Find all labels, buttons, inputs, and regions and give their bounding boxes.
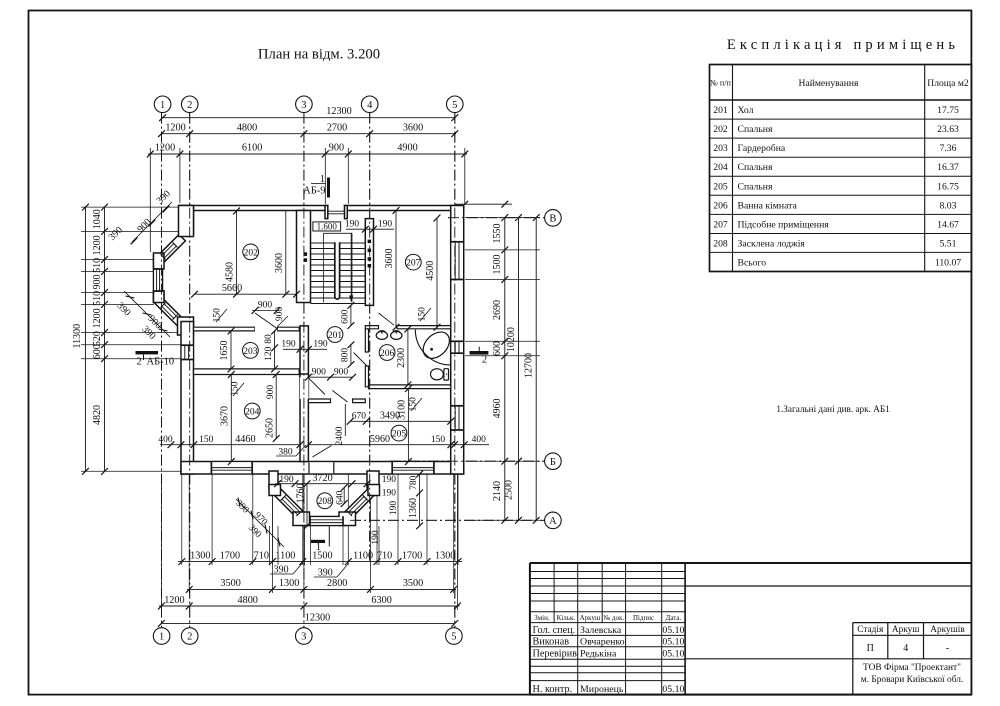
svg-text:4: 4	[903, 643, 908, 654]
svg-text:3600: 3600	[403, 122, 423, 133]
svg-text:-: -	[946, 643, 950, 654]
svg-text:208: 208	[318, 497, 333, 507]
svg-text:190: 190	[378, 219, 393, 229]
svg-text:05.10: 05.10	[662, 684, 684, 695]
svg-text:190: 190	[389, 501, 399, 516]
svg-text:800: 800	[340, 348, 350, 363]
svg-text:1: 1	[160, 100, 165, 111]
svg-text:Виконав: Виконав	[533, 636, 570, 647]
svg-text:В: В	[549, 214, 556, 225]
svg-text:520: 520	[92, 331, 103, 346]
svg-text:1100: 1100	[275, 551, 295, 562]
svg-text:190: 190	[313, 340, 328, 350]
svg-text:80: 80	[264, 334, 274, 344]
svg-text:4580: 4580	[225, 262, 236, 282]
svg-text:5: 5	[451, 632, 456, 643]
svg-text:№ док.: № док.	[603, 614, 624, 622]
svg-text:Гол. спец.: Гол. спец.	[533, 625, 576, 636]
svg-text:Гардеробна: Гардеробна	[738, 143, 786, 154]
svg-text:Найменування: Найменування	[799, 78, 860, 89]
svg-text:900: 900	[92, 275, 103, 290]
svg-text:190: 190	[279, 475, 294, 485]
svg-text:900: 900	[312, 367, 327, 377]
svg-text:8.03: 8.03	[940, 200, 957, 211]
svg-text:3670: 3670	[220, 406, 231, 426]
svg-text:5960: 5960	[370, 434, 390, 445]
svg-text:Спальня: Спальня	[738, 162, 773, 173]
svg-text:1040: 1040	[92, 209, 103, 229]
svg-text:Змін.: Змін.	[534, 614, 550, 622]
svg-text:4: 4	[367, 100, 373, 111]
svg-text:600: 600	[92, 344, 103, 359]
svg-text:205: 205	[713, 181, 728, 192]
svg-text:600: 600	[340, 309, 350, 324]
svg-text:4500: 4500	[425, 261, 436, 281]
svg-text:16.75: 16.75	[937, 181, 959, 192]
svg-text:640: 640	[336, 490, 346, 505]
svg-text:670: 670	[352, 412, 367, 422]
svg-text:№ п/п: № п/п	[710, 79, 732, 88]
svg-text:12700: 12700	[524, 353, 535, 378]
svg-text:1200: 1200	[92, 235, 103, 255]
svg-text:120: 120	[264, 346, 274, 361]
svg-text:2140: 2140	[492, 481, 503, 501]
svg-text:4460: 4460	[235, 434, 255, 445]
svg-text:510: 510	[92, 291, 103, 306]
svg-text:16.37: 16.37	[937, 162, 959, 173]
svg-text:3600: 3600	[274, 253, 285, 273]
svg-text:м. Бровари Київської обл.: м. Бровари Київської обл.	[861, 674, 964, 685]
svg-text:Стадія: Стадія	[857, 625, 884, 635]
svg-text:Спальня: Спальня	[738, 124, 773, 135]
svg-text:3: 3	[301, 632, 306, 643]
svg-text:2400: 2400	[335, 426, 345, 445]
svg-text:Аркуш: Аркуш	[580, 614, 601, 622]
svg-text:5: 5	[452, 100, 457, 111]
svg-text:2800: 2800	[327, 578, 347, 589]
svg-text:1.600: 1.600	[317, 222, 338, 232]
svg-text:208: 208	[713, 239, 728, 250]
svg-text:1500: 1500	[492, 255, 503, 275]
svg-text:150: 150	[431, 435, 446, 445]
svg-text:Аркушів: Аркушів	[930, 625, 965, 635]
svg-text:2650: 2650	[264, 418, 275, 438]
svg-text:05.10: 05.10	[662, 625, 684, 636]
svg-text:Залевська: Залевська	[580, 625, 622, 636]
svg-text:110.07: 110.07	[935, 257, 961, 268]
svg-text:Миронець: Миронець	[580, 684, 624, 695]
svg-text:4960: 4960	[492, 399, 503, 419]
svg-text:2700: 2700	[327, 122, 347, 133]
svg-text:17.75: 17.75	[937, 105, 959, 116]
svg-text:207: 207	[406, 259, 421, 269]
svg-text:05.10: 05.10	[662, 636, 684, 647]
svg-text:Засклена лоджія: Засклена лоджія	[738, 239, 806, 250]
svg-text:6100: 6100	[242, 143, 262, 154]
svg-text:1760: 1760	[295, 483, 306, 503]
svg-text:А: А	[549, 516, 557, 527]
svg-text:П: П	[867, 643, 874, 654]
svg-text:Експлікація приміщень: Експлікація приміщень	[727, 37, 959, 53]
svg-text:400: 400	[158, 435, 173, 445]
svg-text:1: 1	[316, 542, 321, 553]
svg-text:203: 203	[713, 143, 728, 154]
svg-text:1300: 1300	[435, 551, 455, 562]
svg-text:190: 190	[382, 488, 397, 498]
svg-text:1200: 1200	[155, 143, 175, 154]
svg-text:202: 202	[244, 248, 259, 258]
svg-text:900: 900	[266, 385, 276, 400]
svg-text:Редькіна: Редькіна	[580, 648, 617, 659]
svg-text:4800: 4800	[238, 595, 258, 606]
svg-text:10200: 10200	[506, 327, 517, 352]
svg-text:6300: 6300	[371, 595, 391, 606]
svg-text:190: 190	[371, 530, 381, 545]
svg-text:5.51: 5.51	[940, 239, 957, 250]
svg-text:АБ-9: АБ-9	[303, 186, 325, 197]
svg-text:Кільк.: Кільк.	[557, 614, 576, 622]
svg-text:900: 900	[275, 307, 285, 322]
svg-text:3720: 3720	[312, 473, 332, 484]
svg-text:207: 207	[713, 219, 728, 230]
svg-text:4900: 4900	[397, 143, 417, 154]
svg-text:3500: 3500	[403, 578, 423, 589]
svg-text:2690: 2690	[492, 300, 503, 320]
svg-text:Всього: Всього	[738, 257, 767, 268]
svg-text:4820: 4820	[92, 405, 103, 425]
svg-text:1300: 1300	[279, 578, 299, 589]
svg-text:2500: 2500	[504, 480, 515, 500]
svg-text:План на відм. 3.200: План на відм. 3.200	[258, 47, 380, 63]
svg-text:1300: 1300	[190, 551, 210, 562]
svg-text:1200: 1200	[165, 122, 185, 133]
svg-text:2: 2	[137, 357, 142, 368]
svg-text:204: 204	[713, 162, 728, 173]
svg-text:203: 203	[243, 347, 258, 357]
svg-text:Аркуш: Аркуш	[892, 625, 920, 635]
svg-text:190: 190	[345, 219, 360, 229]
svg-text:206: 206	[713, 200, 728, 211]
svg-text:900: 900	[329, 143, 344, 154]
svg-text:7.36: 7.36	[940, 143, 957, 154]
svg-text:3100: 3100	[397, 400, 408, 420]
svg-text:Ванна кімната: Ванна кімната	[738, 200, 798, 211]
svg-text:3600: 3600	[384, 249, 395, 269]
svg-text:Хол: Хол	[738, 105, 754, 116]
svg-text:201: 201	[328, 331, 343, 341]
svg-text:1700: 1700	[220, 551, 240, 562]
svg-text:Підсобне приміщення: Підсобне приміщення	[738, 219, 830, 230]
svg-text:Дата.: Дата.	[666, 614, 682, 622]
svg-text:12300: 12300	[305, 612, 330, 623]
svg-text:23.63: 23.63	[937, 124, 959, 135]
svg-text:АБ-10: АБ-10	[147, 357, 175, 368]
svg-text:4800: 4800	[237, 122, 257, 133]
svg-text:1: 1	[159, 632, 164, 643]
svg-text:05.10: 05.10	[662, 648, 684, 659]
svg-text:1700: 1700	[402, 551, 422, 562]
svg-text:205: 205	[392, 430, 407, 440]
svg-text:1650: 1650	[219, 341, 230, 361]
svg-text:Спальня: Спальня	[738, 181, 773, 192]
svg-text:Підпис: Підпис	[633, 614, 654, 622]
svg-text:710: 710	[254, 551, 269, 562]
svg-text:1.Загальні дані див. арк. АБ1: 1.Загальні дані див. арк. АБ1	[776, 404, 890, 414]
svg-text:12300: 12300	[326, 106, 351, 117]
svg-text:190: 190	[281, 340, 296, 350]
svg-text:400: 400	[472, 435, 487, 445]
svg-text:14.67: 14.67	[937, 219, 959, 230]
svg-text:2300: 2300	[396, 348, 407, 368]
svg-text:3500: 3500	[220, 578, 240, 589]
svg-text:1550: 1550	[492, 224, 503, 244]
svg-text:ТОВ Фірма "Проектант": ТОВ Фірма "Проектант"	[863, 663, 961, 673]
svg-text:600: 600	[492, 341, 503, 356]
svg-text:900: 900	[334, 367, 349, 377]
svg-text:2: 2	[187, 632, 192, 643]
svg-text:150: 150	[199, 435, 214, 445]
svg-text:3: 3	[301, 100, 306, 111]
svg-text:Н. контр.: Н. контр.	[533, 684, 573, 695]
svg-text:Б: Б	[550, 457, 556, 468]
svg-text:1200: 1200	[164, 595, 184, 606]
svg-text:Перевірив: Перевірив	[533, 648, 578, 659]
svg-text:Площа м2: Площа м2	[927, 78, 969, 89]
svg-text:204: 204	[245, 407, 260, 417]
svg-text:1360: 1360	[408, 498, 419, 518]
svg-text:190: 190	[382, 475, 397, 485]
svg-text:5660: 5660	[222, 283, 242, 294]
svg-text:2: 2	[482, 355, 487, 366]
svg-text:206: 206	[380, 349, 395, 359]
svg-text:Овчаренко: Овчаренко	[580, 636, 625, 647]
svg-text:1200: 1200	[92, 308, 103, 328]
svg-text:900: 900	[258, 301, 273, 311]
svg-text:780: 780	[409, 475, 419, 490]
svg-text:202: 202	[713, 124, 728, 135]
svg-text:2: 2	[187, 100, 192, 111]
svg-text:201: 201	[713, 105, 728, 116]
svg-text:510: 510	[92, 258, 103, 273]
